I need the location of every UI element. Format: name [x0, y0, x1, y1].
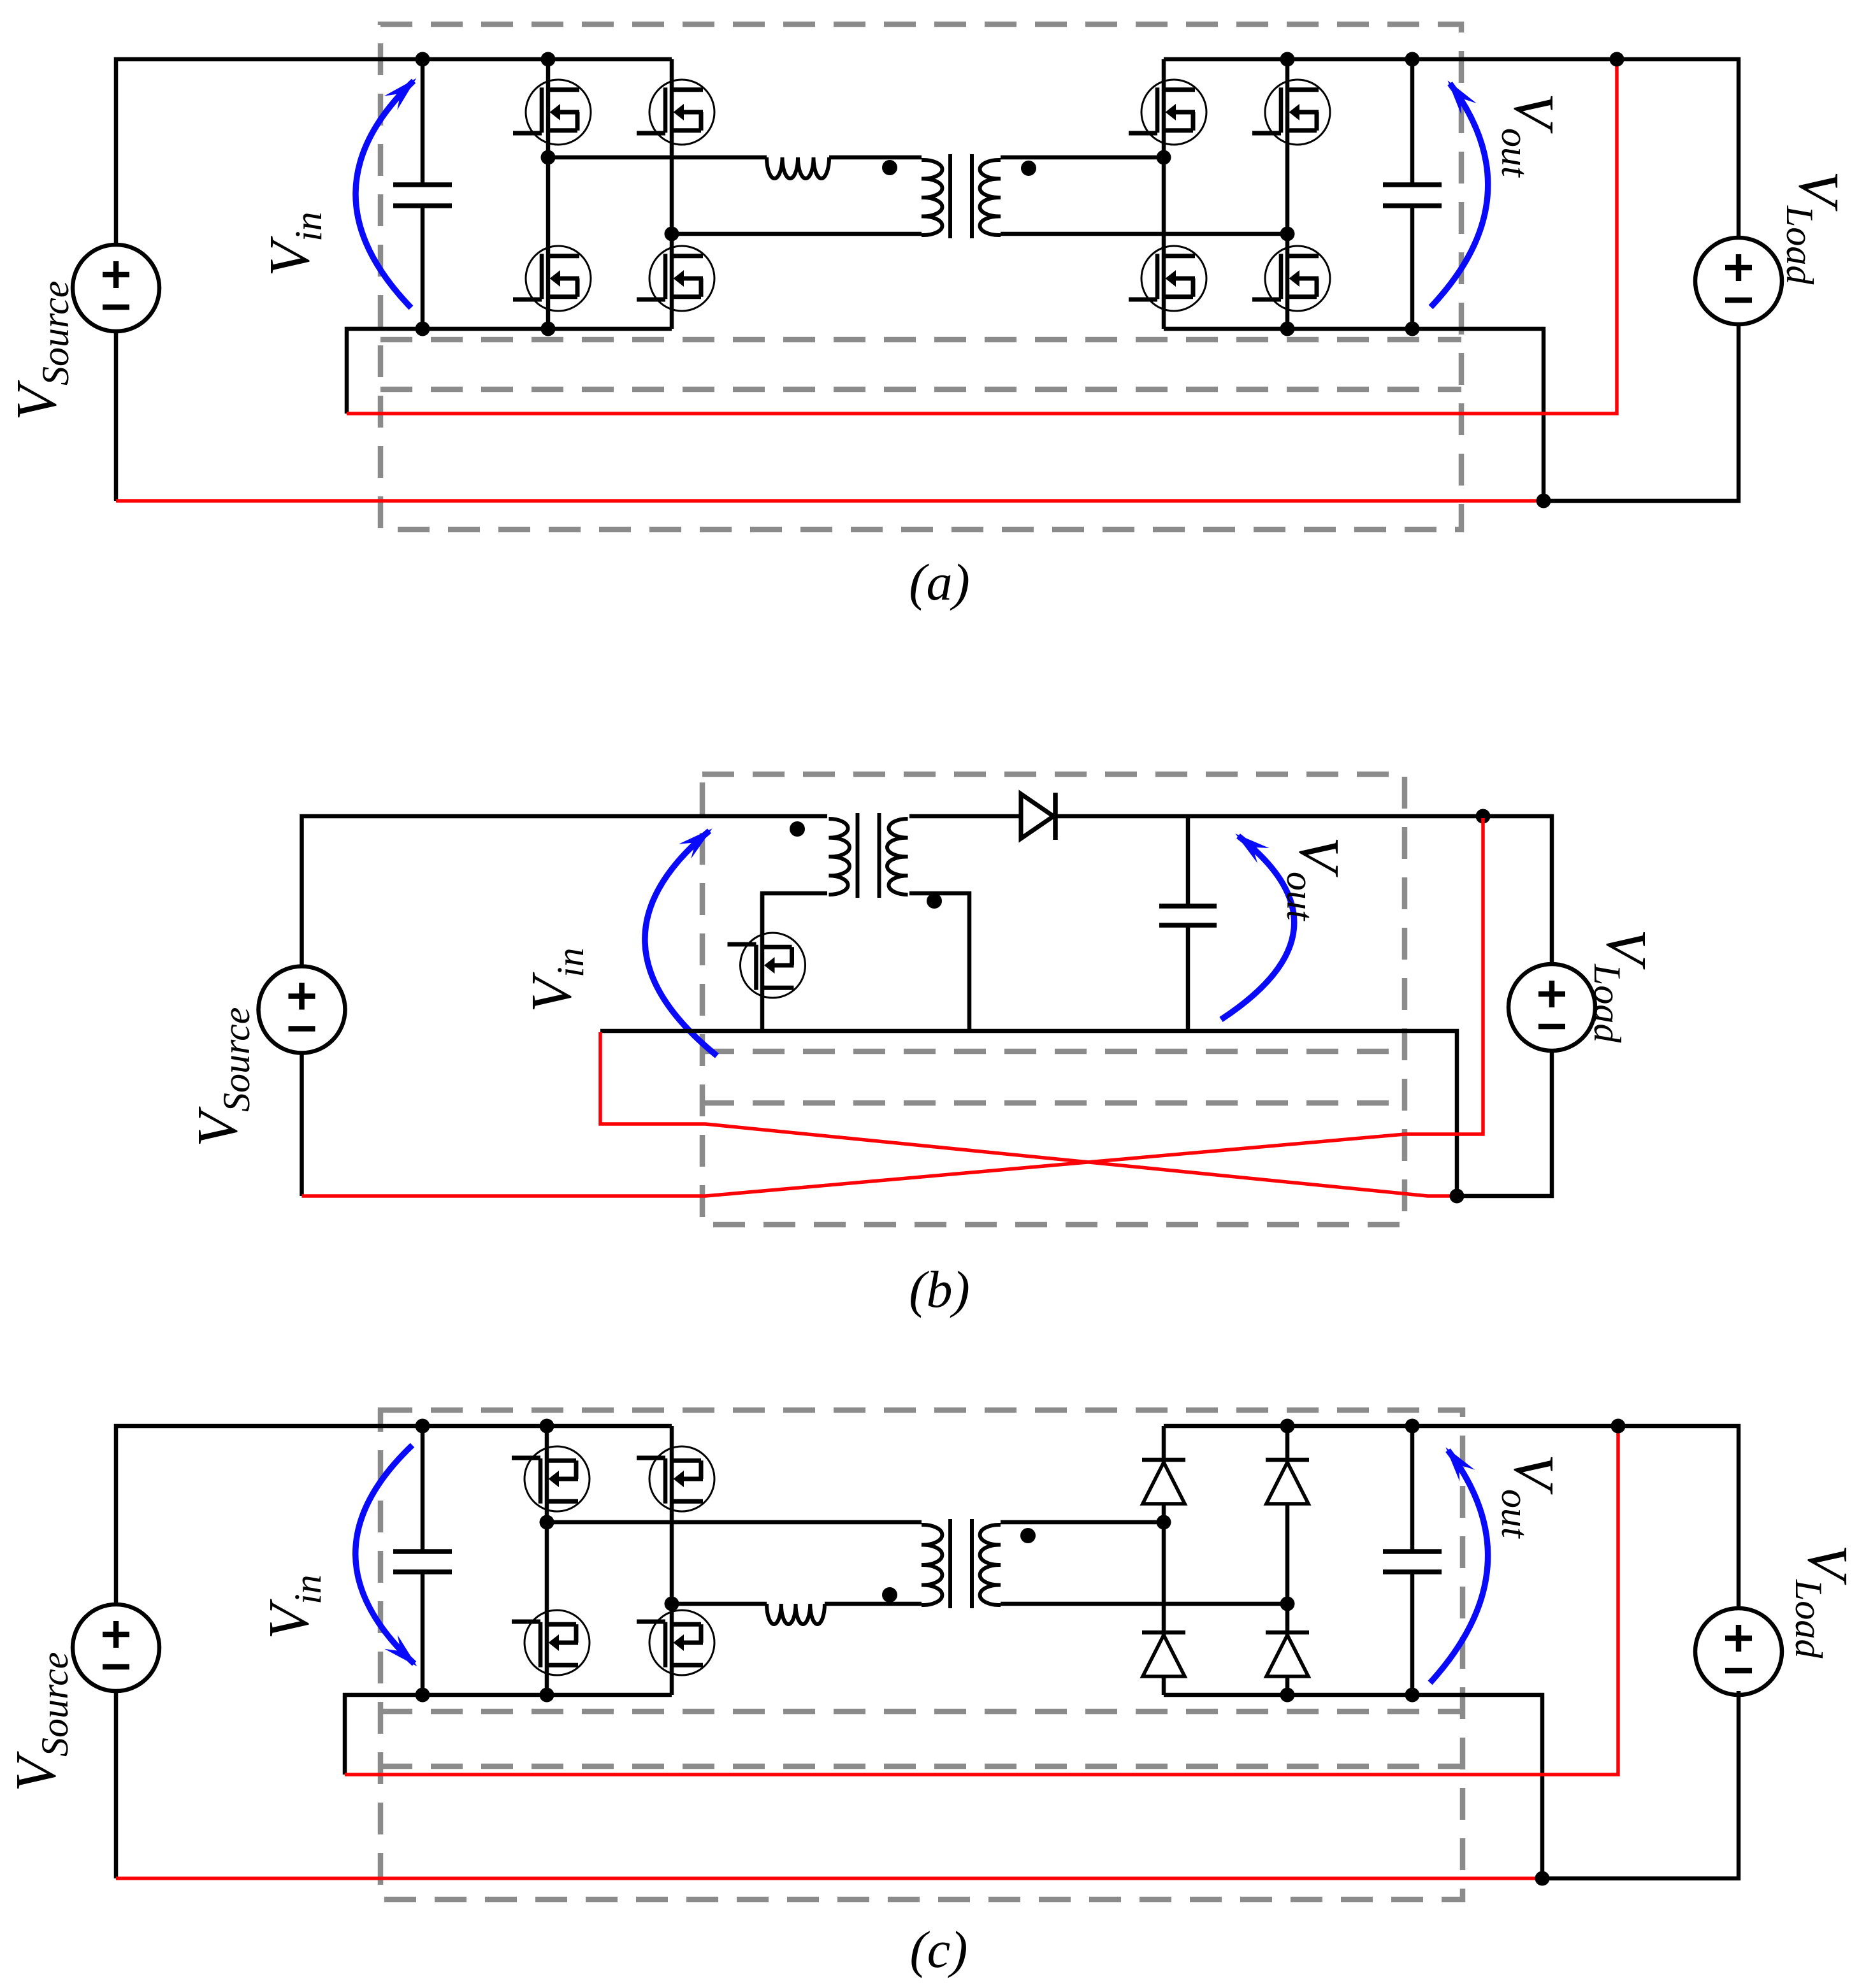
- blue arrow Vout (c): [1430, 1447, 1488, 1683]
- transistor Q3 (c): [637, 1446, 714, 1511]
- wire right bottom rail (a): [1164, 329, 1544, 501]
- inductor L (c): [767, 1604, 825, 1624]
- wire upper link (c): [547, 1520, 922, 1525]
- inductor L (a): [767, 157, 829, 178]
- wire inductor to primary (c): [825, 1602, 922, 1606]
- transistor Q4 (c): [637, 1610, 714, 1675]
- wire VSource bottom lead (b): [300, 1053, 304, 1196]
- dashed inner line 1 (b): [702, 1049, 1405, 1055]
- wire VSource top to left rail (a): [116, 59, 672, 245]
- label VSource (c): [4, 1652, 76, 1792]
- wire bridge leg A2 (c): [670, 1426, 674, 1695]
- dashed inner line 2 (c): [380, 1764, 1463, 1769]
- transistor Q4 (a): [637, 246, 714, 311]
- red wire output sense (b): [302, 818, 1484, 1196]
- label Vout (a): [1494, 93, 1565, 178]
- dashed converter box (c): [380, 1410, 1463, 1899]
- voltage source VSource (a): [73, 245, 159, 331]
- node Cin top (a): [416, 52, 430, 67]
- node leg A2 mid (c): [665, 1597, 679, 1611]
- blue arrow Vout (b): [1221, 833, 1294, 1019]
- transistor Q1 (c): [512, 1446, 590, 1511]
- caption (a): [909, 553, 970, 611]
- label VSource (a): [5, 281, 76, 421]
- transistor Q7 (a): [1252, 80, 1330, 145]
- label Vin (a): [258, 212, 329, 277]
- capacitor Cin (a): [393, 59, 452, 329]
- transistor Q5 (a): [1129, 80, 1206, 145]
- red sense wire (c): [345, 1428, 1618, 1775]
- wire VSource bottom lead (a): [114, 331, 119, 501]
- wire bridge leg B1 (a): [1162, 59, 1166, 329]
- transistor Q1 (a): [513, 80, 591, 145]
- diode D1 (b): [1021, 793, 1055, 840]
- node leg A1 top (c): [540, 1419, 554, 1434]
- voltage source VLoad (b): [1508, 964, 1595, 1051]
- wire secondary bottom lead (a): [1001, 232, 1287, 236]
- wire diode to output (b): [1055, 816, 1552, 964]
- node leg B2 top (c): [1280, 1419, 1295, 1434]
- wire left bottom rail (a): [347, 329, 672, 414]
- node leg A1 bottom (c): [540, 1688, 554, 1703]
- node Cout top (c): [1405, 1419, 1420, 1434]
- wire right top rail (a): [1164, 59, 1739, 238]
- transistor Q2 (c): [512, 1610, 590, 1675]
- wire diode leg B1 (c): [1162, 1426, 1166, 1695]
- node leg A2 mid (a): [665, 227, 679, 241]
- wire secondary bottom lead (c): [1001, 1602, 1287, 1606]
- node Cin top (c): [416, 1419, 430, 1434]
- capacitor Cin (c): [393, 1426, 452, 1695]
- transistor Q2 (a): [513, 246, 591, 311]
- wire VLoad bottom (b): [1457, 1051, 1552, 1196]
- wire VSource top to left rail (c): [116, 1426, 672, 1604]
- wire VLoad bottom (c): [1542, 1691, 1739, 1878]
- node leg B2 bottom (c): [1280, 1688, 1295, 1703]
- label VLoad (b): [1586, 929, 1658, 1043]
- transformer T (b): [790, 813, 942, 909]
- blue arrow Vout (a): [1431, 80, 1488, 307]
- node Cout bottom (c): [1405, 1688, 1420, 1703]
- transformer T (c): [882, 1519, 1036, 1608]
- node red tap (a): [1610, 52, 1624, 67]
- svg-text:(c): (c): [909, 1920, 967, 1978]
- wire VSource top to primary (b): [302, 816, 828, 967]
- wire bridge leg A2 (a): [670, 59, 674, 329]
- capacitor Cout (b): [1159, 816, 1217, 1031]
- node bottom junction (b): [1450, 1189, 1465, 1204]
- diode D3 (c): [1142, 1632, 1185, 1676]
- wire right bottom rail (c): [1164, 1695, 1542, 1878]
- wire left bottom rail (c): [345, 1695, 672, 1775]
- label Vout (c): [1494, 1454, 1565, 1539]
- wire VLoad bottom (a): [1544, 324, 1739, 501]
- label VSource (b): [186, 1007, 257, 1147]
- caption (c): [909, 1920, 967, 1978]
- wire bridge leg A1 (a): [546, 59, 551, 329]
- wire lower link (a): [672, 232, 922, 236]
- wire upper link (a): [548, 155, 767, 160]
- wire primary bottom lead (b): [762, 893, 827, 935]
- wire bottom rail (b): [600, 1031, 1457, 1196]
- wire inductor to primary (a): [829, 155, 922, 160]
- node Cin bottom (a): [416, 322, 430, 336]
- node leg B2 mid (c): [1280, 1597, 1295, 1611]
- node leg B2 bottom (a): [1280, 322, 1295, 336]
- capacitor Cout (c): [1383, 1426, 1442, 1695]
- node Cin bottom (c): [416, 1688, 430, 1703]
- node leg A1 mid (c): [540, 1515, 554, 1530]
- red return wire (c): [116, 1876, 1542, 1880]
- dashed inner line 1 (a): [380, 337, 1461, 343]
- transformer T (a): [882, 154, 1036, 238]
- caption (b): [909, 1260, 970, 1318]
- node leg A1 bottom (a): [541, 322, 556, 336]
- red wire input sense (b): [600, 1032, 1457, 1196]
- diode D2 (c): [1266, 1460, 1309, 1504]
- dashed inner line 1 (c): [380, 1709, 1463, 1715]
- label VLoad (c): [1788, 1545, 1852, 1659]
- dashed converter box (a): [380, 24, 1461, 529]
- node leg B2 mid (a): [1280, 227, 1295, 241]
- wire bridge leg A1 (c): [545, 1426, 549, 1695]
- blue arrow Vin (c): [356, 1445, 417, 1666]
- voltage source VLoad (c): [1695, 1608, 1782, 1695]
- wire secondary top lead (c): [1001, 1520, 1164, 1525]
- wire secondary top lead (a): [1001, 155, 1164, 160]
- svg-text:(a): (a): [909, 553, 970, 611]
- wire secondary top lead (b): [909, 814, 1021, 819]
- node leg B1 mid (c): [1157, 1515, 1171, 1530]
- transistor Q3 (a): [637, 80, 714, 145]
- node Cout bottom (a): [1405, 322, 1420, 336]
- transistor Q8 (a): [1252, 246, 1330, 311]
- svg-text:(b): (b): [909, 1260, 970, 1318]
- node output top (b): [1476, 809, 1491, 824]
- node leg A1 top (a): [541, 52, 556, 67]
- dashed inner line 2 (a): [380, 387, 1461, 393]
- node Cout top (a): [1405, 52, 1420, 67]
- red return wire (a): [116, 499, 1544, 503]
- label Vin (c): [257, 1574, 329, 1639]
- voltage source VLoad (a): [1695, 238, 1782, 324]
- label Vin (b): [520, 947, 591, 1012]
- dashed converter box (b): [702, 774, 1405, 1225]
- node return junction (a): [1537, 494, 1551, 508]
- node leg B2 top (a): [1280, 52, 1295, 67]
- transistor Q6 (a): [1129, 246, 1206, 311]
- voltage source VSource (c): [73, 1604, 159, 1691]
- wire secondary bottom lead (b): [909, 893, 969, 1031]
- diode D4 (c): [1266, 1632, 1309, 1676]
- label VLoad (a): [1779, 171, 1850, 285]
- wire lower link (c): [672, 1602, 767, 1606]
- blue arrow Vin (b): [645, 828, 717, 1056]
- node red tap (c): [1611, 1419, 1626, 1434]
- diode D1 (c): [1142, 1460, 1185, 1504]
- node return junction (c): [1535, 1871, 1550, 1886]
- blue arrow Vin (a): [356, 78, 416, 308]
- node leg A1 mid (a): [541, 150, 556, 165]
- node leg B1 mid (a): [1157, 150, 1171, 165]
- red sense wire Vout to input side (a): [347, 61, 1617, 414]
- wire right top rail (c): [1164, 1426, 1739, 1608]
- wire diode leg B2 (c): [1285, 1426, 1290, 1695]
- capacitor Cout (a): [1383, 59, 1442, 329]
- transistor Q1 (b): [728, 933, 806, 998]
- wire VSource bottom lead (c): [114, 1691, 119, 1878]
- wire bridge leg B2 (a): [1285, 59, 1290, 329]
- dashed inner line 2 (b): [702, 1100, 1405, 1106]
- wire MOSFET drain-source (b): [760, 893, 765, 1031]
- label Vout (b): [1279, 837, 1350, 921]
- voltage source VSource (b): [259, 967, 345, 1053]
